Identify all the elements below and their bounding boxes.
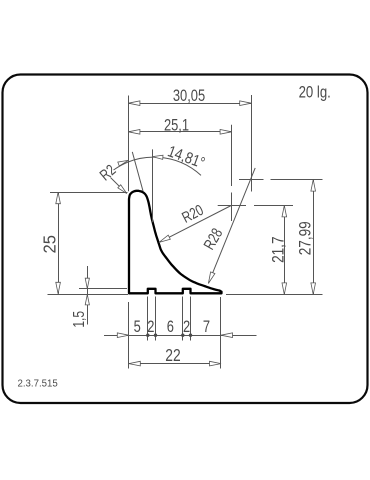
extension line 21,7 b (254, 205, 293, 207)
center cross R28 horizontal / ext 27,99 a (239, 179, 264, 181)
arrow 25,1 right (220, 130, 232, 135)
extension line left (x=128.4) (128, 96, 130, 192)
svg-text:27,99: 27,99 (296, 221, 315, 255)
dimension line 22 (129, 363, 221, 365)
extension line top of profile (y=192.2) (50, 192, 128, 194)
center cross R20 vertical (231, 193, 233, 222)
dimension line 5-2-6-2-7 (104, 335, 257, 337)
svg-text:6: 6 (167, 317, 174, 336)
arrow 25 top (56, 192, 61, 204)
radius arrow R28 (208, 272, 215, 284)
arrow 7-dim right outside (221, 333, 233, 338)
svg-text:30,05: 30,05 (173, 86, 205, 105)
leader arrow R2 (118, 185, 127, 194)
arrow 22 left (129, 361, 141, 366)
extension line notch2 right (190, 297, 192, 341)
dimension dot notch2 left (181, 334, 184, 337)
svg-text:25,1: 25,1 (164, 116, 189, 135)
extension line bottom left (y=294.4) (48, 294, 129, 296)
dimension line 30,05 (128, 103, 251, 105)
arrow 5-dim left outside (117, 333, 129, 338)
svg-text:2: 2 (147, 317, 154, 336)
dimension line 1,5 (87, 266, 89, 325)
arrow 27,99 bottom (311, 283, 316, 295)
extension line for 30,05 right (x=251.2) (251, 95, 253, 192)
extension line notch1 left (147, 297, 149, 341)
dimension line 21,7 (284, 205, 286, 294)
arrow 30,05 left (128, 101, 140, 106)
svg-text:22: 22 (165, 345, 180, 365)
angle side ray slanted (132, 152, 143, 191)
arrow 30,05 right (240, 101, 252, 106)
center cross R20 horizontal / ext 21,7 a (218, 205, 246, 207)
arrow 21,7 bottom (282, 283, 287, 295)
arrow 1,5 upper (85, 278, 89, 289)
radius line R20 (159, 206, 231, 243)
extension line bottom profile right (x=221) (220, 297, 222, 369)
leader line R2 (111, 178, 127, 194)
svg-text:2: 2 (183, 317, 190, 336)
extension line 27,99 b (271, 179, 323, 181)
svg-text:7: 7 (203, 317, 210, 336)
arrow 1,5 lower (85, 294, 89, 305)
dimension line 25,1 (128, 131, 231, 133)
svg-text:20 lg.: 20 lg. (299, 83, 331, 102)
profile outline of rubber section (129, 191, 222, 293)
radius line R28 (208, 168, 255, 284)
svg-text:25: 25 (40, 235, 59, 253)
svg-text:R2: R2 (97, 161, 119, 184)
extension line bottom profile left (x=128.8) (128, 302, 130, 369)
arrow 25 bottom (56, 282, 61, 294)
radius arrow R20 (159, 235, 170, 242)
svg-text:R20: R20 (179, 201, 206, 226)
dimension dot notch1 right (154, 334, 157, 337)
dimension line 25 (58, 192, 60, 294)
extension line for 25,1 right (x=231.6) (231, 125, 233, 186)
extension line notch2 left (182, 297, 184, 341)
extension line notch1 right (155, 297, 157, 341)
extension line notch top (y=288.7) (79, 288, 127, 290)
dimension dot notch1 left (146, 334, 149, 337)
arrow 27,99 top (311, 180, 316, 192)
svg-text:5: 5 (134, 317, 141, 336)
angle arc arrow right (152, 155, 163, 159)
arrow 25,1 left (128, 130, 140, 135)
svg-text:21,7: 21,7 (269, 236, 288, 262)
dimension line 27,99 (313, 180, 315, 295)
svg-text:14,81°: 14,81° (165, 143, 207, 172)
angle dimension arc (114, 157, 202, 175)
svg-text:1,5: 1,5 (69, 311, 87, 328)
angle side ray vertical (152, 149, 154, 222)
dimension dot notch2 right (189, 334, 192, 337)
angle arc arrow left (118, 160, 129, 166)
extension line bottom right (y=294.4) (226, 294, 323, 296)
arrow 22 right (210, 361, 222, 366)
drawing frame border (3, 75, 368, 404)
svg-text:2.3.7.515: 2.3.7.515 (18, 378, 59, 389)
arrow 21,7 top (282, 205, 287, 217)
